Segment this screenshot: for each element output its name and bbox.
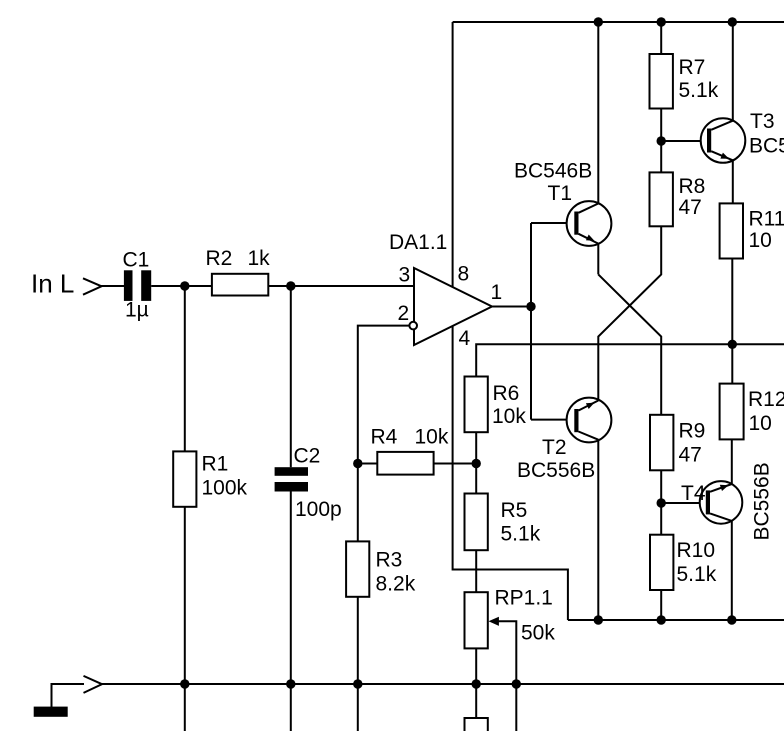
svg-text:R1: R1: [202, 453, 229, 476]
svg-text:In L: In L: [31, 269, 74, 299]
output wire pin 1: [492, 306, 531, 308]
resistor R4: [377, 452, 433, 475]
svg-text:100k: 100k: [202, 477, 248, 500]
svg-text:100p: 100p: [295, 498, 342, 521]
svg-text:BC556B: BC556B: [517, 459, 595, 482]
crossover wire T1 emitter to R9 column: [598, 274, 661, 414]
svg-text:8.2k: 8.2k: [376, 573, 416, 596]
capacitor C2: [275, 467, 308, 476]
transistor T3: [701, 118, 746, 163]
wire T1 base: [531, 222, 574, 224]
second rail (output rail): [476, 344, 784, 376]
wire T2 base: [531, 419, 574, 421]
svg-text:R4: R4: [371, 426, 398, 449]
wire C2 top: [290, 286, 292, 467]
svg-text:T2: T2: [542, 436, 567, 459]
wire output to T1 base and T2 base: [530, 223, 532, 420]
svg-text:47: 47: [679, 444, 702, 467]
resistor R5: [465, 494, 488, 551]
svg-text:R11: R11: [749, 208, 784, 231]
resistor R8: [650, 172, 673, 226]
wire R3 top: [357, 464, 359, 542]
wire R6 to R5: [475, 432, 477, 493]
svg-text:T4: T4: [681, 482, 706, 505]
wire R3 bottom to ground rail and below: [357, 597, 359, 731]
svg-text:C1: C1: [123, 249, 150, 272]
wire pin 2 to feedback node: [358, 326, 410, 464]
wire R11 to second rail: [731, 259, 733, 345]
node junction C1/R1: [180, 281, 189, 290]
wire T1 collector to top rail: [597, 22, 599, 204]
wire R4 left: [358, 463, 378, 465]
svg-text:8: 8: [458, 263, 470, 286]
ground arrow: [84, 676, 103, 693]
svg-text:R10: R10: [677, 539, 716, 562]
junction negative rail / R10: [657, 615, 666, 624]
svg-text:RP1.1: RP1.1: [495, 587, 553, 610]
pin 4 wire down: [453, 326, 568, 621]
wire R7 to node: [660, 109, 662, 173]
svg-text:R8: R8: [679, 175, 706, 198]
svg-text:1µ: 1µ: [125, 299, 149, 322]
ground: [34, 707, 68, 717]
svg-text:BC546B: BC546B: [749, 135, 784, 158]
junction negative rail / T4 collector: [727, 615, 736, 624]
junction top rail / R7: [657, 17, 666, 26]
transistor T2: [567, 398, 612, 443]
junction ground rail / RP1.1: [472, 679, 481, 688]
svg-text:T1: T1: [548, 182, 573, 205]
svg-text:C2: C2: [294, 445, 321, 468]
wire T2 collector to bottom rail: [597, 440, 599, 620]
wire R10 to bottom rail: [660, 590, 662, 620]
wiper arrow RP1.1: [489, 617, 499, 626]
junction ground rail / C2: [286, 679, 295, 688]
wire R5 to RP1.1: [475, 550, 477, 592]
junction R9/R10/T4 base: [657, 498, 666, 507]
wire input arrow to C1: [101, 285, 125, 287]
svg-text:R12: R12: [748, 388, 784, 411]
junction top rail / T3 collector: [728, 17, 737, 26]
junction ground rail / wiper: [512, 679, 521, 688]
resistor R3: [346, 541, 369, 596]
op-amp DA1.1: [414, 268, 492, 345]
transistor T1: [567, 201, 612, 246]
capacitor C1: [124, 270, 133, 301]
input arrow: [83, 278, 102, 294]
junction R7/R8/T3 base: [657, 136, 666, 145]
svg-text:5.1k: 5.1k: [679, 79, 719, 102]
svg-text:BC556B: BC556B: [751, 462, 774, 540]
top supply rail: [453, 21, 784, 23]
resistor (cut off at bottom): [465, 718, 488, 731]
wire R1 bottom to ground rail and below: [184, 507, 186, 731]
ground rail: [101, 683, 784, 685]
junction negative rail / T2 collector: [594, 615, 603, 624]
svg-text:50k: 50k: [521, 622, 555, 645]
svg-text:10: 10: [749, 229, 772, 252]
wire R12 to T4 emitter: [731, 439, 733, 484]
svg-text:R6: R6: [493, 382, 520, 405]
resistor R9: [650, 415, 673, 471]
wire second rail to R12: [731, 344, 733, 383]
svg-text:5.1k: 5.1k: [677, 563, 717, 586]
wire C1 to R2: [151, 285, 212, 287]
wire T3 emitter to R11: [732, 160, 734, 203]
svg-text:1k: 1k: [248, 247, 271, 270]
junction top rail / T1 collector: [594, 17, 603, 26]
wiper wire: [498, 621, 516, 731]
svg-text:DA1.1: DA1.1: [389, 231, 447, 254]
svg-text:4: 4: [459, 327, 471, 350]
svg-text:R7: R7: [679, 56, 706, 79]
junction second rail / R11-R12: [728, 340, 737, 349]
inverting input bubble pin 2: [409, 322, 417, 330]
wire T1 emitter down: [597, 244, 599, 275]
svg-text:10k: 10k: [492, 405, 526, 428]
svg-text:10k: 10k: [415, 426, 449, 449]
wire C2 bottom to ground rail and below: [290, 492, 292, 731]
junction R6/R5/R4: [472, 459, 481, 468]
output node junction: [526, 302, 535, 311]
resistor R2: [212, 274, 268, 296]
wire R1 top: [184, 286, 186, 451]
resistor R10: [650, 535, 673, 590]
wire T4 collector to bottom rail: [731, 521, 733, 620]
wire R2 to op-amp pin 3: [268, 285, 414, 287]
wire T3 collector to top rail: [732, 22, 734, 121]
wire top rail to R7: [660, 22, 662, 54]
svg-text:BC546B: BC546B: [514, 160, 592, 183]
svg-text:R9: R9: [679, 420, 706, 443]
svg-text:2: 2: [398, 302, 410, 325]
transistor T4: [700, 481, 743, 524]
potentiometer RP1.1: [465, 592, 488, 648]
junction R4/R3/pin2: [353, 459, 362, 468]
svg-text:R3: R3: [376, 549, 403, 572]
svg-text:3: 3: [399, 264, 411, 287]
svg-text:T3: T3: [750, 110, 775, 133]
negative rail: [568, 619, 784, 621]
wire R9 to node: [660, 470, 662, 534]
wire T3 base: [661, 140, 707, 142]
wire ground arrow to ground symbol: [52, 684, 85, 707]
resistor R12: [720, 384, 744, 440]
crossover wire R8 to T2 emitter: [598, 226, 661, 400]
resistor R6: [465, 377, 488, 433]
resistor R7: [650, 54, 673, 109]
junction ground rail / R3: [353, 679, 362, 688]
svg-text:47: 47: [679, 196, 702, 219]
resistor R1: [173, 451, 196, 506]
svg-text:5.1k: 5.1k: [501, 523, 541, 546]
wire R4 right: [434, 463, 477, 465]
svg-text:R2: R2: [206, 247, 233, 270]
wire T4 base: [661, 502, 706, 504]
wire RP1.1 bottom: [475, 648, 477, 718]
junction ground rail / R1: [180, 679, 189, 688]
resistor R11: [720, 203, 743, 258]
svg-text:10: 10: [749, 412, 772, 435]
svg-text:R5: R5: [501, 499, 528, 522]
node junction R2/C2: [286, 281, 295, 290]
svg-text:1: 1: [491, 281, 503, 304]
pin 8 wire to top rail: [452, 22, 454, 287]
